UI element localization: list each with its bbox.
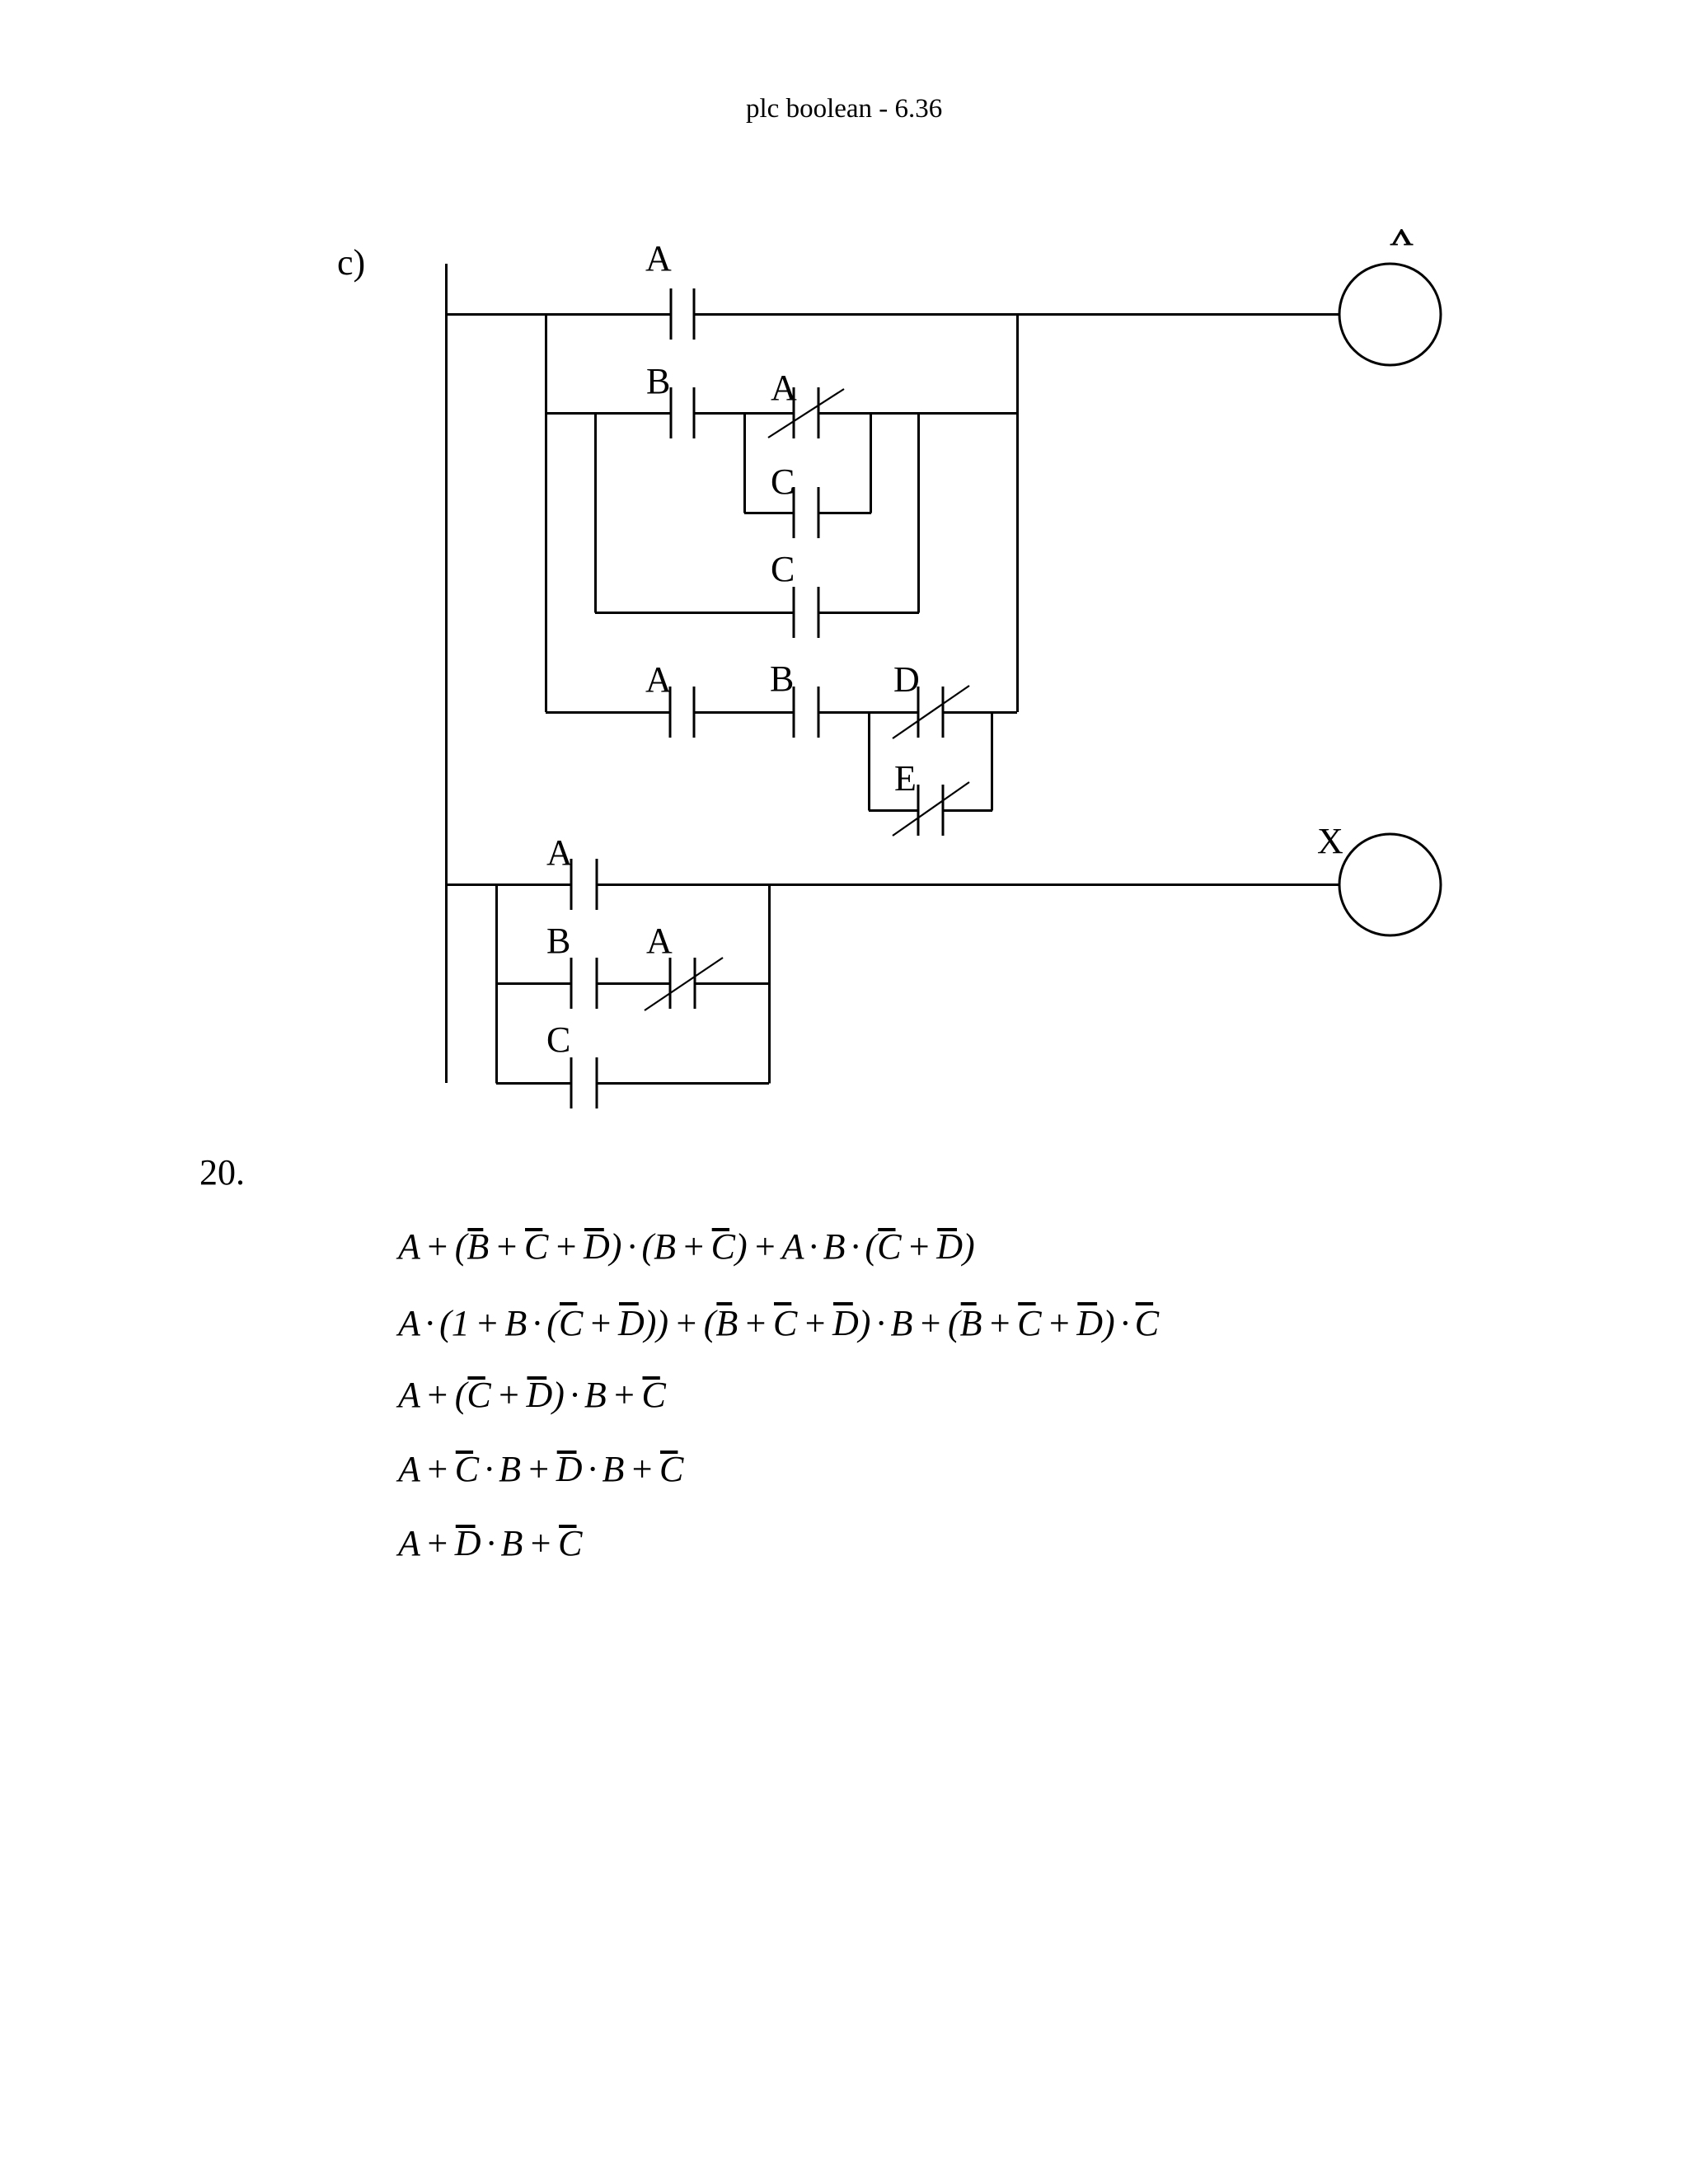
svg-text:A: A xyxy=(546,832,573,873)
contact B (rung 5, NO) xyxy=(571,958,597,1009)
svg-text:V: V xyxy=(1390,224,1414,249)
svg-text:A: A xyxy=(646,921,673,961)
svg-text:A + (B + C + D) · (B + C) + A: A + (B + C + D) · (B + C) + A · B · (C +… xyxy=(396,1226,975,1267)
svg-text:X: X xyxy=(1317,821,1343,861)
svg-text:C: C xyxy=(771,462,795,502)
wire: outer C branch box xyxy=(595,413,919,613)
svg-text:C: C xyxy=(771,549,795,589)
wire rung 5 (B series A-bar) xyxy=(496,982,769,985)
svg-text:plc boolean - 6.36: plc boolean - 6.36 xyxy=(746,94,942,124)
node: left branch bus xyxy=(545,314,547,712)
contact B (rung 2, NO) xyxy=(671,387,694,438)
overbars placeholder xyxy=(456,1230,1153,1526)
svg-text:A: A xyxy=(645,659,672,700)
svg-text:20.: 20. xyxy=(199,1152,245,1193)
svg-text:A + C · B + D · B + C: A + C · B + D · B + C xyxy=(396,1449,684,1489)
wire rung 4 (output X rung) xyxy=(445,883,1339,886)
label A (rung 2 NC) xyxy=(771,368,797,408)
label X (coil 2) xyxy=(1317,821,1343,861)
svg-text:A: A xyxy=(771,368,797,408)
svg-text:D: D xyxy=(893,659,920,700)
contact C (outer branch, NO) xyxy=(794,587,818,638)
label A (rung 5 NC) xyxy=(646,921,673,961)
label E xyxy=(894,758,917,799)
label A (rung 3) xyxy=(645,659,672,700)
coil V (rung 1 output) xyxy=(1339,264,1441,365)
svg-text:B: B xyxy=(546,921,570,961)
label A (rung 4) xyxy=(546,832,573,873)
contact A (rung 3, NO) xyxy=(670,687,694,738)
label B (rung 5) xyxy=(546,921,570,961)
label c) part marker xyxy=(337,242,365,283)
page header xyxy=(746,94,942,124)
label A (rung 1) xyxy=(645,238,672,279)
svg-text:A · (1 + B · (C + D)) + (B + C: A · (1 + B · (C + D)) + (B + C + D) · B … xyxy=(396,1303,1160,1343)
wire rung 3 (A B D series) xyxy=(546,711,1017,714)
contact C (rung 6, NO) xyxy=(571,1057,597,1108)
wire rung 1 (output V rung) xyxy=(445,313,1339,316)
contact A-bar (rung 5, NC) xyxy=(645,958,723,1010)
label B (rung 2) xyxy=(646,361,670,401)
svg-text:A + D · B + C: A + D · B + C xyxy=(396,1523,583,1563)
wire: inner C branch box around A-bar xyxy=(744,413,871,513)
label V (rotated, coil 1) xyxy=(1390,224,1414,249)
node: X-rung right branch bus xyxy=(768,884,771,1084)
wire: E branch box around D-bar xyxy=(869,712,992,811)
label C (rung 6) xyxy=(546,1019,570,1060)
label D (rung 3) xyxy=(893,659,920,700)
node: right branch bus xyxy=(1016,314,1019,712)
svg-text:B: B xyxy=(770,658,794,699)
contact A-bar (rung 2, NC) xyxy=(768,387,844,438)
contact B (rung 3, NO) xyxy=(794,687,818,738)
contact D-bar (rung 3, NC) xyxy=(893,686,969,738)
label C (outer branch) xyxy=(771,549,795,589)
svg-text:A + (C + D) · B + C: A + (C + D) · B + C xyxy=(396,1375,666,1415)
wire rung 6 (C branch) xyxy=(496,1082,769,1085)
label B (rung 3) xyxy=(770,658,794,699)
contact A (rung 1, NO) xyxy=(671,288,694,340)
contact E-bar (branch, NC) xyxy=(893,782,969,836)
contact A (rung 4, NO) xyxy=(571,859,597,910)
label 20. item number xyxy=(199,1152,245,1193)
left power rail xyxy=(445,264,448,1083)
coil X (rung 4 output) xyxy=(1339,834,1441,935)
equation block item 20 xyxy=(396,1226,975,1267)
svg-text:A: A xyxy=(645,238,672,279)
wire rung 2 (B series A-bar branch) xyxy=(546,412,1017,415)
label C (inner branch) xyxy=(771,462,795,502)
svg-text:C: C xyxy=(546,1019,570,1060)
contact C (inner branch, NO) xyxy=(794,487,818,538)
node: X-rung left branch bus xyxy=(495,884,498,1084)
svg-text:B: B xyxy=(646,361,670,401)
svg-text:c): c) xyxy=(337,242,365,283)
svg-text:E: E xyxy=(894,758,917,799)
